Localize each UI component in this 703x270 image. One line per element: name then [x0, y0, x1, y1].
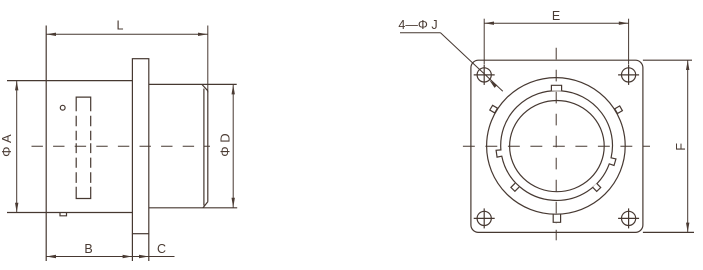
- front view: lower-right ring tab: [593, 183, 601, 191]
- front view: bottom outer lug tab: [553, 214, 560, 222]
- front view: bayonet ring circle with side jogs: [496, 91, 616, 201]
- svg-text:L: L: [117, 18, 124, 32]
- svg-text:Φ D: Φ D: [218, 133, 233, 156]
- front view: upper-right outer lug: [615, 106, 623, 114]
- front view: bottom edge extension line to F: [643, 231, 694, 233]
- dimension C: [132, 255, 174, 258]
- dimension E: [484, 19, 628, 65]
- side view: horizontal centerline: [32, 145, 211, 147]
- dimension ΦA: [15, 81, 18, 213]
- svg-text:B: B: [84, 242, 92, 256]
- svg-text:E: E: [552, 9, 560, 23]
- dimension L: [46, 26, 208, 93]
- dimension B: [46, 255, 132, 258]
- front view: inner shell circle: [510, 101, 605, 192]
- front view: vertical centerline: [555, 48, 557, 224]
- side view: small hole circle: [60, 105, 65, 110]
- front view: lower-left ring tab: [511, 183, 519, 191]
- svg-text:F: F: [674, 143, 688, 151]
- dimension ΦD: [232, 85, 235, 208]
- front view: mounting hole bottom-left: [474, 208, 495, 228]
- front view: upper-left outer lug: [490, 105, 498, 113]
- side view: bottom notch tab: [60, 213, 67, 216]
- side view: connector body outline: [7, 26, 132, 262]
- svg-text:Φ A: Φ A: [0, 134, 14, 157]
- front view: horizontal centerline: [463, 145, 650, 147]
- svg-text:4—Φ J: 4—Φ J: [398, 18, 437, 32]
- svg-text:C: C: [157, 242, 166, 256]
- side view: mounting flange rectangle: [132, 59, 148, 261]
- front view: top edge extension line to F: [643, 59, 692, 61]
- dimension F: [686, 60, 689, 232]
- label 4-ΦJ with leader: [400, 33, 503, 92]
- front view: square flange with rounded corners: [471, 60, 643, 232]
- front view: outer coupling ring circle: [487, 78, 626, 215]
- front view: mounting hole bottom-right: [618, 208, 639, 228]
- front view: top ring key tab: [551, 85, 561, 90]
- front view: mounting hole top-left: [474, 65, 495, 85]
- side view: rear barrel outline with chamfers: [149, 84, 237, 207]
- front view: mounting hole top-right: [618, 65, 639, 85]
- side view: dashed key slot rectangle: [76, 97, 91, 198]
